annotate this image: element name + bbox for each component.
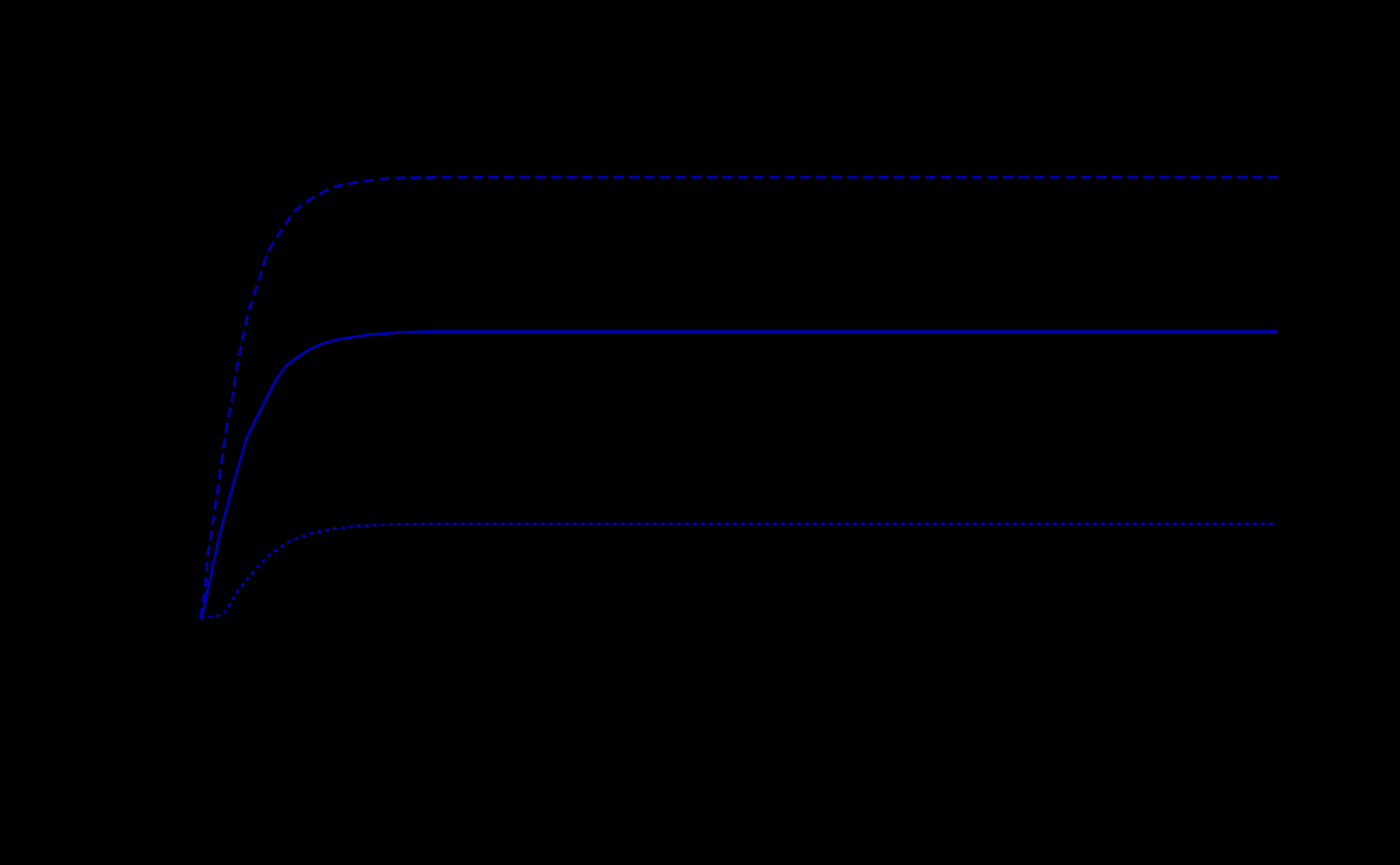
curve: dashed series (top plateau) — [200, 177, 1278, 618]
curve: solid series (middle plateau) — [200, 332, 1278, 618]
curve: dotted series (bottom plateau) — [200, 524, 1273, 618]
